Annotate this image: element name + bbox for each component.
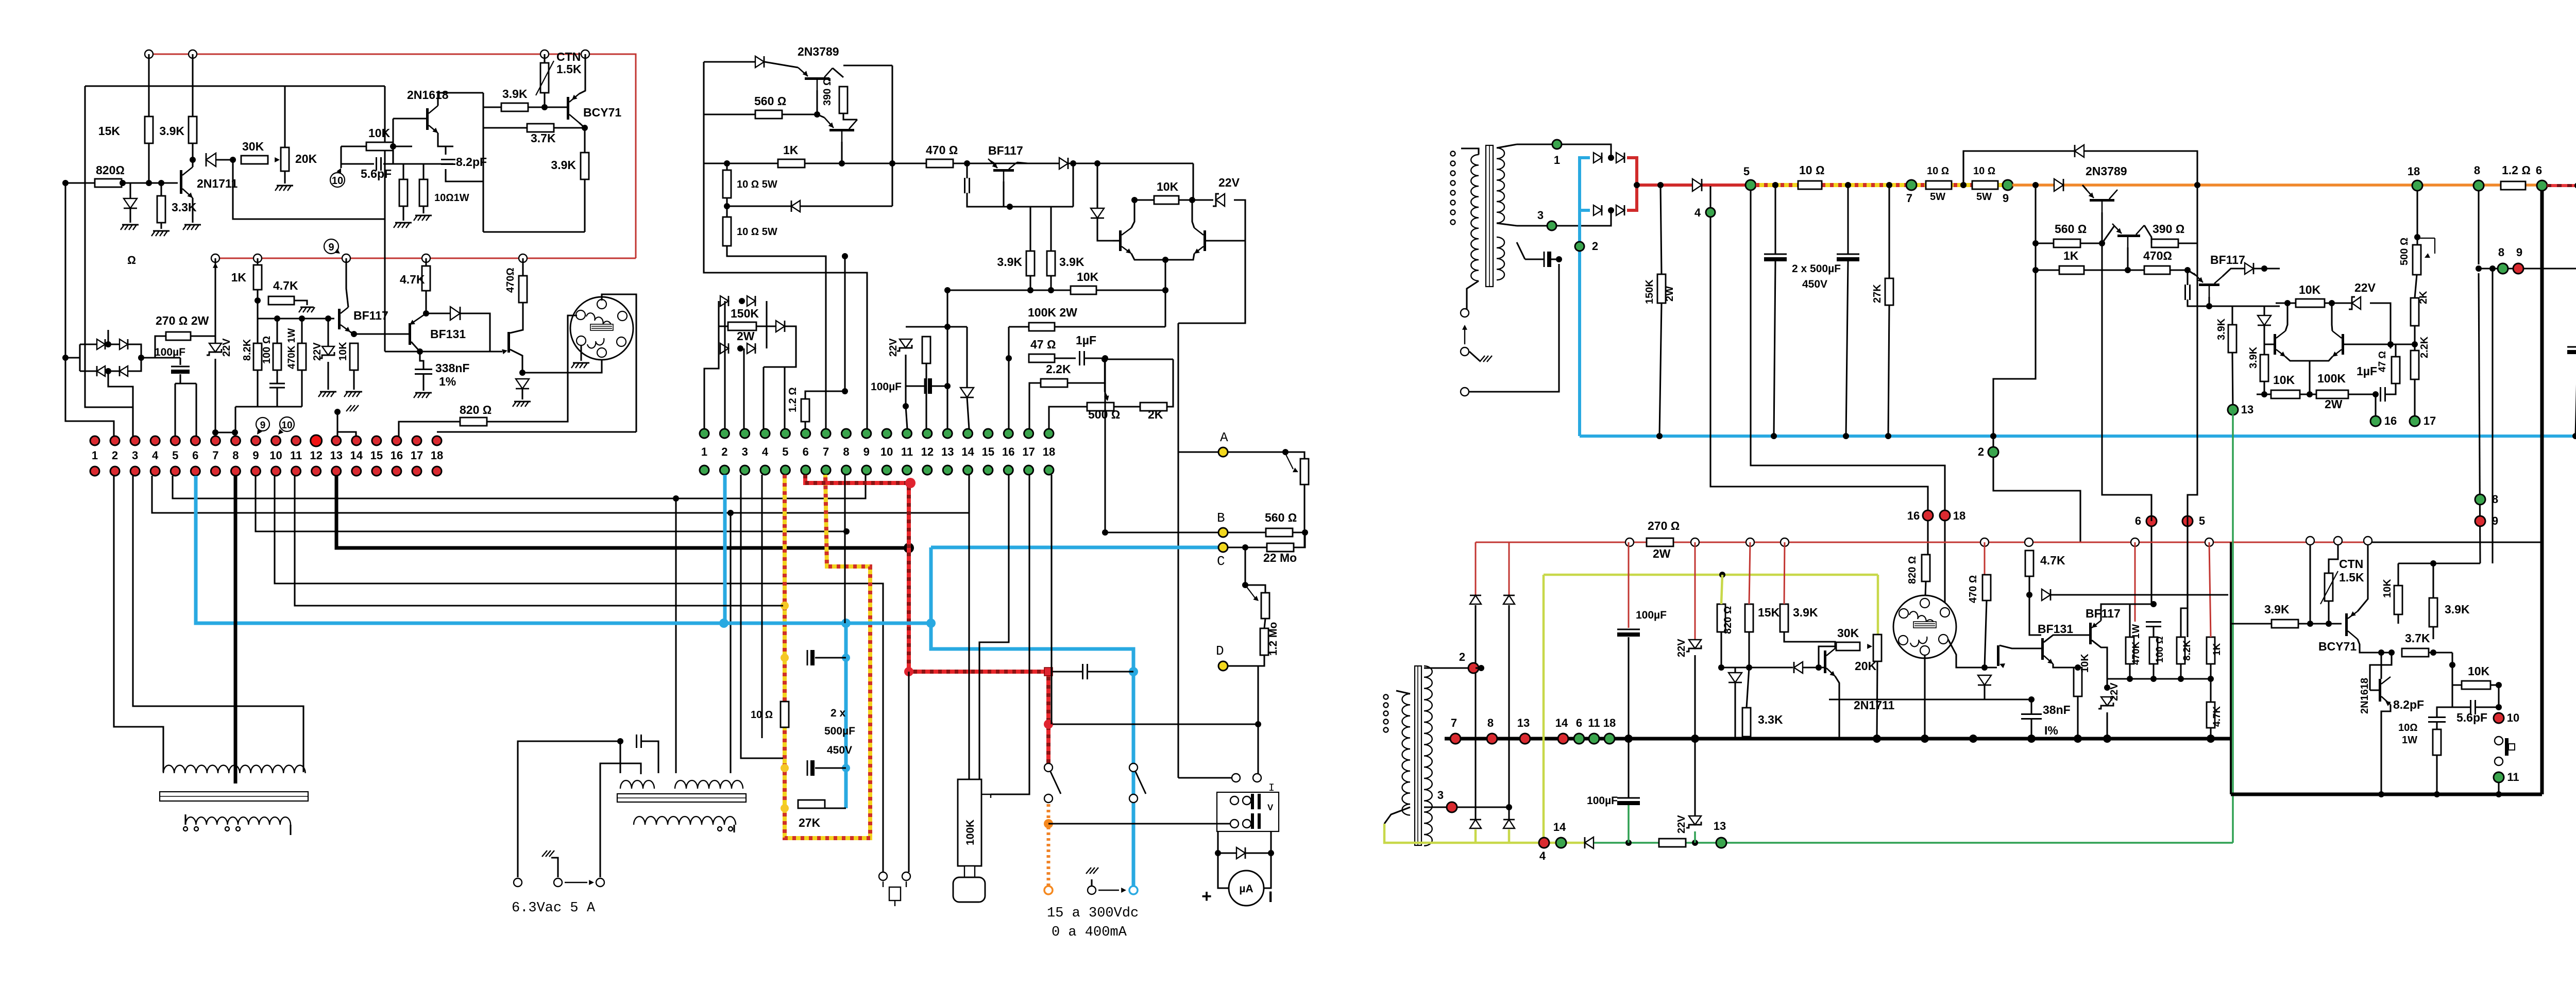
- terminal strip2 pin 17 bottom: [1024, 465, 1033, 475]
- wire 2.2K right: [1067, 358, 1105, 383]
- wire yg stub1: [1475, 829, 1477, 843]
- junction: [1960, 182, 1967, 188]
- wire 10Kr r: [2325, 302, 2352, 304]
- svg-text:6: 6: [803, 445, 809, 458]
- svg-text:2.2K: 2.2K: [1046, 362, 1071, 376]
- transistor Q12 right: [2117, 235, 2140, 237]
- wire blue bracket: [1580, 158, 1590, 210]
- wire Q2 emitter: [438, 133, 453, 146]
- resistor 100K 2W: [1029, 323, 1055, 331]
- wire 820ohm row: [65, 182, 95, 184]
- resistor 15K r: [1745, 604, 1753, 632]
- wire blue elbow: [931, 623, 1133, 890]
- capacitor 100 r: [2146, 621, 2161, 623]
- svg-text:47 Ω: 47 Ω: [1030, 338, 1056, 351]
- resistor 47 r: [2392, 357, 2400, 383]
- wire BCY71 emitter top: [579, 54, 585, 94]
- transformer T1 primary: [163, 765, 306, 773]
- wire g2 col: [1962, 151, 1964, 185]
- junction: [390, 143, 396, 149]
- transistor BF117 Q4: [338, 309, 341, 329]
- junction: [1608, 207, 1614, 213]
- wire 560r left: [2036, 242, 2054, 244]
- svg-text:13: 13: [1714, 820, 1726, 832]
- wire cap bot: [967, 193, 1010, 207]
- resistor 470ohm blk: [926, 159, 953, 168]
- wire socket gnd lead: [580, 345, 582, 361]
- wire block left rail: [718, 301, 719, 348]
- wire 18 col to socket: [1944, 520, 1945, 608]
- wire meter box l: [1217, 831, 1218, 875]
- diode blk2: [791, 201, 800, 212]
- svg-text:1.2 Ω: 1.2 Ω: [2502, 163, 2531, 177]
- wire 1618 base: [2370, 689, 2379, 691]
- wire dot6col: [2151, 603, 2154, 605]
- pot stem: [964, 866, 975, 877]
- resistor 470 s: [1982, 575, 1991, 601]
- junction: [2206, 303, 2212, 309]
- terminal strip1 pin 12 bottom: [312, 466, 321, 476]
- transformer T1 secondary: [185, 817, 291, 825]
- resistor 3.9K c: [581, 153, 589, 179]
- wire Q7 collector: [1131, 200, 1134, 228]
- transistor Q10: [829, 129, 854, 131]
- svg-text:2N1618: 2N1618: [2359, 678, 2370, 714]
- junction: [1094, 160, 1100, 166]
- wire 56pF l: [2452, 706, 2470, 708]
- svg-text:338nF: 338nF: [435, 361, 469, 375]
- T1 tap 2: [194, 827, 198, 831]
- svg-text:22V: 22V: [312, 342, 323, 361]
- transformer T4 sec: [1424, 666, 1432, 846]
- wire bf131r em drop: [2053, 664, 2078, 668]
- svg-text:B: B: [1217, 510, 1225, 526]
- svg-text:10: 10: [281, 420, 292, 431]
- wire 10Kr l: [2276, 302, 2296, 304]
- resistor 30K: [241, 156, 268, 164]
- wire B row r: [2479, 268, 2576, 269]
- wire 390r left: [2144, 225, 2151, 243]
- terminal strip1 pin 8 bottom: [231, 466, 240, 476]
- svg-text:4: 4: [762, 445, 769, 458]
- wire coll col: [2451, 653, 2453, 707]
- resistor 3.3K r: [1742, 708, 1751, 737]
- svg-text:3.9K: 3.9K: [2264, 603, 2290, 616]
- resistor 820ohm: [95, 179, 122, 187]
- wire 33K link: [1747, 668, 1749, 708]
- T4 tap 2: [1384, 703, 1388, 708]
- terminal red 6 r: [2146, 516, 2157, 526]
- wire block mid right: [756, 325, 767, 327]
- wire q11 col: [1017, 162, 1028, 163]
- wire D col to sw: [1257, 666, 1259, 774]
- arrow to blue: [1098, 890, 1119, 891]
- wire 3.9K to base: [528, 106, 567, 108]
- svg-text:1K: 1K: [2063, 249, 2079, 262]
- junction: [1990, 433, 1996, 439]
- terminal strip2 pin 17 top: [1024, 429, 1033, 438]
- wire 3.3K gnd: [160, 223, 162, 229]
- wire T4 prim lead2: [1384, 807, 1410, 824]
- wire 20K gnd: [284, 171, 285, 184]
- wire cap left: [341, 163, 374, 164]
- wire 10b stair: [727, 246, 826, 429]
- wire 470ohm col: [522, 258, 523, 276]
- rail circ 4: [1781, 538, 1789, 546]
- terminal strip2 pin 12 top: [923, 429, 932, 438]
- wire bus to border: [2211, 738, 2231, 739]
- terminal strip2 pin 4 bottom: [760, 465, 770, 475]
- diode bf117r: [2245, 263, 2253, 274]
- wire r-b top: [422, 164, 424, 179]
- svg-text:5: 5: [172, 449, 178, 462]
- terminal green 7: [1906, 180, 1917, 190]
- resistor 27K r: [1885, 278, 1893, 305]
- wire diode-bar: [1803, 666, 1824, 668]
- svg-text:3.9K: 3.9K: [2248, 346, 2259, 369]
- junction red big: [905, 478, 916, 488]
- terminal strip1 pin 5 bottom: [171, 466, 180, 476]
- wire q11 join: [990, 161, 994, 163]
- wire sec lower lead: [1517, 242, 1525, 259]
- terminal BCY71 top: [581, 50, 589, 58]
- svg-text:13: 13: [330, 449, 342, 462]
- terminal strip2 pin 4 top: [760, 429, 770, 438]
- rail circ 1: [1625, 538, 1634, 546]
- junction: [1070, 160, 1076, 166]
- wire 470K bottom: [301, 370, 302, 407]
- svg-text:450V: 450V: [1802, 278, 1827, 290]
- svg-text:5: 5: [782, 445, 788, 458]
- wire 39r2: [2263, 325, 2265, 355]
- pot knob: [953, 877, 985, 902]
- resistor 100ohm: [273, 343, 281, 370]
- zener 22V dp: [1216, 194, 1225, 206]
- svg-text:2N1618: 2N1618: [407, 88, 449, 102]
- wire D lead: [1228, 655, 1264, 666]
- resistor 4.7K t: [2025, 551, 2033, 576]
- wire 2K bot: [2414, 326, 2415, 351]
- junction: [1027, 287, 1033, 293]
- pot wiper tick: [981, 794, 991, 795]
- junction: [1771, 433, 1777, 439]
- T1 tap 1: [183, 827, 188, 831]
- zener 22V a: [322, 346, 334, 355]
- wire bridge frame: [65, 344, 80, 371]
- svg-text:8: 8: [2492, 493, 2498, 506]
- tube socket V1: [570, 297, 633, 360]
- wire red out: [1637, 184, 1751, 187]
- terminal strip2 pin 3 bottom: [740, 465, 750, 475]
- wire 470K bot: [2129, 664, 2130, 679]
- terminal blue ring: [1129, 886, 1138, 894]
- capacitor T2 cap: [636, 735, 637, 748]
- wire out to col: [764, 326, 796, 367]
- wire fan 1175: [295, 476, 783, 606]
- svg-text:1: 1: [1554, 154, 1560, 166]
- wire 82pF top: [2437, 707, 2452, 717]
- svg-text:6: 6: [1576, 716, 1582, 729]
- wire BF131 collector arrow: [410, 313, 426, 325]
- wire 470s bot: [1985, 601, 1987, 668]
- wire 820ohm to base: [122, 182, 178, 184]
- wire potC to 1.2Mo: [1264, 619, 1265, 628]
- capacitor 5.6pF: [376, 157, 377, 171]
- terminal strip1 pin 18 bottom: [432, 466, 442, 476]
- wire red lower rail: [215, 258, 636, 259]
- terminal strip1 pin 9 bottom: [251, 466, 260, 476]
- wire 390r right: [2178, 185, 2197, 243]
- wire pot C join: [1245, 585, 1265, 593]
- svg-text:450V: 450V: [827, 744, 852, 756]
- wire 390 bottom: [843, 113, 857, 120]
- wire g4b col: [1710, 217, 1928, 511]
- terminal 1K top: [253, 254, 262, 262]
- terminal green 2: [1575, 242, 1584, 251]
- wire emitters: [1131, 254, 1194, 260]
- svg-text:100 Ω: 100 Ω: [2155, 636, 2165, 663]
- terminal green 3: [1547, 221, 1556, 230]
- junction: [839, 160, 845, 166]
- terminal strip1 pin 6 top: [191, 436, 200, 445]
- wire 3.9K c col: [584, 128, 585, 232]
- terminal green 11 r: [2494, 772, 2504, 782]
- wire bottom long row: [437, 431, 636, 432]
- resistor 1.2 r: [2501, 181, 2526, 190]
- wire riser dot5: [174, 383, 176, 436]
- junction: [1282, 449, 1289, 455]
- svg-text:10K: 10K: [1077, 270, 1099, 283]
- svg-text:470K 1W: 470K 1W: [2131, 624, 2142, 665]
- svg-text:10K: 10K: [2382, 579, 2393, 598]
- wire red node row: [1053, 723, 1258, 725]
- ground: [277, 185, 293, 187]
- junction: [1608, 155, 1614, 161]
- wire left border A: [65, 183, 114, 436]
- svg-text:3: 3: [742, 445, 748, 458]
- ground: [415, 215, 432, 216]
- svg-text:8: 8: [1487, 716, 1494, 729]
- diode D2: [206, 153, 216, 166]
- T4 tap 1: [1384, 695, 1388, 699]
- terminal strip1 pin 7 top: [211, 436, 220, 445]
- wire +Vs rail: [2547, 184, 2576, 187]
- svg-text:10Ω: 10Ω: [2398, 722, 2418, 733]
- wire lr2 col: [1508, 605, 1510, 820]
- junction: [190, 157, 196, 163]
- pushbutton a: [2495, 737, 2503, 745]
- terminal green 14 l: [1556, 838, 1566, 848]
- wire emitters r: [2285, 357, 2332, 361]
- svg-text:BF131: BF131: [2038, 622, 2073, 636]
- wire 560r right: [2080, 242, 2102, 244]
- wire dot5 riser: [784, 367, 785, 429]
- junction: [1102, 529, 1108, 536]
- junction: [1969, 735, 1977, 743]
- junction: [2496, 682, 2502, 688]
- svg-text:470Ω: 470Ω: [505, 268, 516, 293]
- transformer T3 primary: [1471, 155, 1479, 281]
- wire diode to gnd: [129, 208, 131, 223]
- arrow into rail terminal: [213, 263, 218, 268]
- svg-text:4: 4: [152, 449, 159, 462]
- junction: [2207, 735, 2215, 743]
- terminal strip2 pin 7 top: [821, 429, 831, 438]
- svg-text:6: 6: [2536, 164, 2542, 177]
- wire pot top leads: [968, 475, 970, 779]
- resistor 10ohm r: [1798, 181, 1822, 189]
- wire 22Mo out: [1294, 532, 1305, 547]
- svg-text:3.9K: 3.9K: [2445, 603, 2470, 616]
- junction: [1656, 433, 1663, 439]
- junction: [2434, 791, 2440, 797]
- resistor 10ohm1W r: [2433, 729, 2441, 755]
- svg-text:4.7K: 4.7K: [2040, 554, 2065, 567]
- resistor 1K blk: [778, 159, 805, 168]
- wire zener col down: [1178, 241, 1245, 323]
- wire 82K bot: [2180, 664, 2181, 679]
- T2 tap 2: [728, 827, 733, 831]
- svg-text:3.9K: 3.9K: [2216, 318, 2227, 340]
- svg-text:CTN: CTN: [556, 50, 581, 63]
- terminal strip2 pin 14 bottom: [963, 465, 973, 475]
- sw V d: [1243, 820, 1251, 828]
- svg-text:2N3789: 2N3789: [798, 45, 839, 58]
- svg-text:11: 11: [901, 445, 913, 458]
- T2 tap 1: [718, 827, 722, 831]
- resistor 150K 2W r: [1657, 274, 1666, 303]
- junction: [1242, 544, 1248, 551]
- junction: [2075, 664, 2081, 671]
- wire dot6 top: [2102, 243, 2151, 521]
- wire A pot lead: [1285, 452, 1304, 459]
- wire 8.2K top: [257, 319, 258, 343]
- potentiometer 500ohm: [1087, 403, 1114, 411]
- wire input gnd: [1469, 352, 1480, 361]
- wire 10a top: [726, 163, 727, 170]
- resistor 3.9K r1: [2228, 325, 2236, 353]
- resistor 270ohm 2W: [166, 332, 191, 340]
- svg-text:5.6pF: 5.6pF: [2456, 711, 2487, 724]
- wire 39r1 bot: [2232, 353, 2233, 410]
- wire diode mid bottom: [967, 397, 969, 429]
- svg-text:V: V: [1267, 803, 1274, 812]
- zener 22V r1: [1689, 640, 1701, 648]
- resistor 560ohm: [755, 110, 782, 119]
- wire 22V mid bottom: [906, 355, 907, 429]
- svg-text:10 Ω: 10 Ω: [1799, 163, 1825, 177]
- junction: [138, 355, 144, 361]
- wire 1618 base col: [2370, 653, 2392, 690]
- junction: [2099, 240, 2105, 246]
- svg-text:1.5K: 1.5K: [2339, 571, 2364, 584]
- diode block out: [776, 321, 785, 332]
- ground: [153, 230, 170, 232]
- svg-text:10 Ω: 10 Ω: [1973, 165, 1995, 177]
- terminal strip2 pin 6 top: [801, 429, 810, 438]
- ground: [320, 391, 336, 393]
- diode blk1: [755, 56, 764, 68]
- wire blue dot6: [196, 476, 724, 623]
- junction: [212, 429, 218, 436]
- junction: [1657, 182, 1664, 188]
- wire red top rail: [149, 54, 636, 258]
- diode yg: [1585, 837, 1594, 848]
- potentiometer 100K big: [958, 779, 981, 866]
- wire 27K col: [1888, 185, 1890, 278]
- plug symbol: [889, 887, 901, 900]
- bridge diode BR1a: [97, 339, 105, 349]
- wire blk left rail: [704, 62, 867, 429]
- diode D4: [516, 379, 529, 389]
- wire 20K feed: [284, 86, 285, 147]
- resistor 1K: [253, 265, 262, 290]
- transistor FET Q6: [507, 332, 510, 353]
- junction: [2412, 341, 2418, 347]
- junction: [62, 355, 69, 361]
- svg-text:3: 3: [132, 449, 138, 462]
- potentiometer A: [1300, 459, 1309, 485]
- wire dot2 to transformer: [114, 476, 163, 772]
- resistor 2.2K: [1041, 379, 1067, 387]
- sw I b: [1253, 774, 1261, 782]
- wire 470 right: [953, 162, 994, 164]
- wire 8.2pF bottom: [446, 169, 483, 181]
- ground: [184, 224, 201, 226]
- wire c2 col: [1847, 185, 1849, 254]
- svg-text:8.2pF: 8.2pF: [456, 155, 487, 169]
- wire cap input r: [1551, 258, 1559, 260]
- diode ddp: [1091, 208, 1104, 218]
- wire BF117 collector: [346, 258, 348, 307]
- wire dot5 top: [2188, 243, 2197, 521]
- resistor 10K s: [2074, 668, 2082, 696]
- junction blue: [841, 619, 851, 628]
- wire capr b: [2188, 299, 2209, 306]
- wire blue main: [724, 622, 931, 625]
- junction: [2372, 391, 2379, 397]
- svg-text:18: 18: [1603, 716, 1616, 729]
- wire BF117r2 emitter: [2092, 621, 2101, 628]
- junction: [1691, 735, 1699, 743]
- wire bf117r2 col: [2092, 640, 2107, 688]
- junction: [2496, 704, 2502, 710]
- wire dot10 fan: [275, 476, 883, 872]
- terminal green 8b: [2498, 263, 2508, 274]
- transistor BF117 r: [2199, 283, 2219, 286]
- wire 2.2K left: [1029, 383, 1041, 429]
- junction: [1718, 664, 1724, 671]
- input terminal 3: [1461, 388, 1469, 396]
- wire g11 bot: [2498, 782, 2499, 794]
- terminal strip2 pin 16 bottom: [1004, 465, 1013, 475]
- wire cap b lead: [815, 767, 846, 769]
- junction: [299, 315, 305, 322]
- resistor 47ohm: [1029, 354, 1055, 362]
- terminal red 4 l: [1539, 838, 1549, 848]
- wire BCY em: [2358, 545, 2368, 611]
- wire caps rail: [393, 163, 453, 164]
- wire 89 to 10K: [2398, 562, 2480, 564]
- wire 47-2K row: [2391, 343, 2415, 345]
- svg-text:2 x: 2 x: [831, 707, 846, 719]
- svg-text:560 Ω: 560 Ω: [754, 94, 786, 108]
- wire rail317 ext: [1069, 162, 1097, 164]
- wire 22V2 bot: [1694, 831, 1696, 843]
- resistor 10K v: [350, 343, 358, 370]
- svg-text:3.7K: 3.7K: [2405, 631, 2430, 645]
- wire cap100 bot: [2153, 627, 2154, 637]
